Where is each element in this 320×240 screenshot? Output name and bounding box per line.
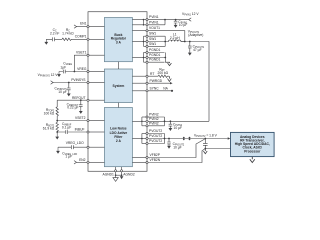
pin SW1 c — [144, 42, 166, 48]
node VPVIN1 12V input arrow — [182, 12, 199, 21]
svg-text:VPVIN1 12 V: VPVIN1 12 V — [182, 12, 199, 17]
ground (CPVIN2) — [169, 128, 173, 131]
pin PVOUT2 a — [142, 129, 165, 135]
pin PGND1 c — [144, 58, 165, 64]
wire SW1 inside tie — [143, 36, 145, 46]
wire PVIN1 outside tie — [164, 19, 166, 25]
capacitor CVREG_LDO — [58, 145, 87, 149]
pin AGND1 — [103, 167, 119, 181]
input arrow VPVINSYS — [51, 81, 54, 84]
svg-text:47 µF: 47 µF — [193, 48, 202, 52]
wire AGND tie — [116, 174, 122, 176]
pin PVIN2 b — [132, 117, 209, 123]
wire PVOUT2 outside tie — [164, 134, 166, 144]
svg-text:NA: NA — [163, 87, 168, 91]
svg-text:EN2: EN2 — [79, 158, 86, 162]
svg-text:COMP1: COMP1 — [75, 34, 87, 38]
wire PVOUT2 inside tie — [141, 134, 143, 144]
capacitor CPVIN1 — [174, 19, 188, 28]
pin VREG_LDO with capacitor CVREG_LDO — [56, 141, 104, 159]
pin PVOUT2 c — [142, 139, 165, 145]
ground (divider) — [56, 132, 58, 134]
capacitor Cvreg — [59, 70, 87, 74]
wire sense return to processor — [205, 148, 230, 150]
ground (comp network) — [44, 39, 48, 45]
resistor Rc — [62, 38, 87, 40]
svg-text:PGND1: PGND1 — [149, 48, 161, 52]
svg-text:61.9 kΩ: 61.9 kΩ — [43, 127, 55, 131]
pin PVOUT2 b — [132, 134, 227, 140]
pin PVINSYS with input VPVINSYS 12V and capacitor CPVINSYS — [38, 73, 105, 96]
capacitor CPVOUT2 — [167, 138, 185, 150]
capacitor CPVINSYS — [67, 83, 71, 91]
IC outline — [88, 12, 147, 172]
svg-text:VPVINSYS 12 V: VPVINSYS 12 V — [38, 73, 59, 78]
pin EN2 — [74, 158, 105, 164]
ground AGND1 open triangle — [113, 178, 118, 182]
capacitor output bypass at load — [203, 138, 208, 154]
pin COMP1 with Rc Cc compensation network — [44, 28, 104, 45]
wire system to LDO connector — [117, 103, 119, 108]
ground AGND2 filled arrow — [120, 176, 124, 179]
wire PGND1 inside tie — [143, 53, 145, 63]
svg-text:INBUF: INBUF — [75, 128, 85, 132]
svg-text:REFOUT: REFOUT — [72, 96, 86, 100]
svg-text:SW1: SW1 — [149, 32, 156, 36]
wire VOUT1 to output node — [148, 31, 185, 42]
ground (CVREG_LDO) — [57, 147, 59, 148]
block System U1b — [104, 69, 132, 103]
wire PVIN2 outside tie — [164, 117, 166, 126]
svg-text:1.74 kΩ: 1.74 kΩ — [62, 31, 74, 35]
pin PGND1 b — [132, 53, 164, 59]
pin RT with resistor RRT — [132, 67, 171, 81]
svg-text:PGND1: PGND1 — [149, 53, 161, 57]
ground (CPVOUT1) — [188, 53, 192, 56]
pin AGND2 — [115, 167, 135, 179]
ferrite bead FB2 — [189, 137, 191, 140]
junction CPVINSYS tap — [68, 82, 70, 84]
svg-text:200 kΩ: 200 kΩ — [158, 71, 169, 75]
wire SW1 outside tie — [164, 36, 166, 46]
pin PVIN2 c — [142, 121, 165, 127]
arrow into processor VPVOUT2 — [228, 137, 231, 139]
pin SW1 b — [132, 37, 165, 43]
wire PVINSYS — [53, 82, 87, 84]
svg-text:PGND1: PGND1 — [149, 58, 161, 62]
svg-text:VREG_LDO: VREG_LDO — [66, 141, 84, 145]
svg-text:VPVOUT2 = 1.8 V: VPVOUT2 = 1.8 V — [194, 133, 218, 138]
svg-text:PWRGD: PWRGD — [150, 79, 163, 83]
ground (Cvreg) — [57, 72, 61, 78]
wire PVIN1 inside tie — [143, 19, 145, 26]
pin VOUT1 — [132, 26, 185, 42]
node VPVOUT1 wire to PVIN2 — [181, 29, 209, 121]
svg-text:PVOUT2: PVOUT2 — [149, 134, 162, 138]
svg-text:System: System — [113, 84, 125, 88]
inductor L1 — [165, 33, 185, 42]
ground (CPVOUT2) — [167, 146, 171, 149]
svg-text:3 A: 3 A — [116, 40, 122, 44]
wire PGND1 outside tie and ground — [164, 53, 171, 66]
pin VSET1 tied to VREG — [74, 51, 105, 73]
svg-text:SW1: SW1 — [149, 42, 156, 46]
pin REFOUT with divider RTOP2 RBOT2 and capacitor CREFOUT — [44, 96, 105, 121]
ground (RRT) — [168, 76, 172, 81]
svg-text:VSET2: VSET2 — [75, 116, 86, 120]
pin PGND1 a — [144, 48, 165, 54]
pin PVIN1 b — [132, 20, 165, 26]
svg-text:RT: RT — [150, 72, 154, 76]
block Low Noise LDO Active Filter U1c — [104, 108, 132, 167]
resistor RTOP2 — [56, 100, 58, 120]
svg-text:PVIN1: PVIN1 — [149, 15, 159, 19]
junction VSET1/VREG — [74, 71, 76, 73]
pin VFB2N — [132, 149, 204, 164]
svg-text:100 kΩ: 100 kΩ — [44, 111, 55, 115]
svg-text:PVIN1: PVIN1 — [149, 20, 159, 24]
capacitor Cc — [46, 37, 62, 41]
svg-text:VFB2N: VFB2N — [150, 158, 161, 162]
pin SW1 a — [144, 32, 166, 38]
svg-text:SYNC: SYNC — [150, 87, 160, 91]
ground (CREFOUT) — [79, 108, 83, 114]
pin INBUF with capacitor CINBUF — [55, 122, 104, 139]
svg-text:PVIN2: PVIN2 — [149, 121, 159, 125]
pin PVIN1 a — [132, 15, 188, 21]
svg-text:Processor: Processor — [244, 149, 261, 153]
pin PVIN2 a — [142, 113, 165, 119]
ferrite bead FB1 — [183, 137, 185, 140]
capacitor CPVOUT1 — [188, 41, 205, 56]
resistor RBOT2 — [43, 121, 59, 133]
wire buck to system connector — [117, 62, 119, 69]
pin VFB2P — [132, 139, 204, 158]
svg-text:EN1: EN1 — [80, 22, 87, 26]
block Analog Devices processor — [231, 132, 275, 156]
svg-text:10 µF: 10 µF — [58, 90, 67, 94]
pin EN1 — [74, 22, 105, 29]
svg-text:0.22 µF: 0.22 µF — [67, 106, 78, 110]
svg-text:10 µF: 10 µF — [173, 145, 182, 149]
svg-text:10 µF: 10 µF — [179, 23, 188, 27]
pin VREG with bypass capacitor Cvreg — [57, 62, 104, 77]
pin VSET2 — [56, 116, 104, 122]
ground (CPVIN1) — [174, 25, 178, 28]
svg-text:2.2 nF: 2.2 nF — [50, 31, 59, 35]
svg-text:PVIN2: PVIN2 — [149, 117, 159, 121]
svg-text:0.1 µF: 0.1 µF — [62, 126, 71, 130]
svg-text:PVOUT2: PVOUT2 — [149, 139, 162, 143]
svg-text:VFB2P: VFB2P — [150, 153, 161, 157]
svg-text:VOUT1: VOUT1 — [149, 26, 160, 30]
block Buck Regulator U1a — [104, 18, 132, 62]
svg-text:PVINSYS: PVINSYS — [71, 78, 86, 82]
capacitor CREFOUT — [79, 100, 83, 108]
capacitor CPVIN2 — [169, 120, 183, 131]
resistor RRT — [148, 75, 169, 77]
ground (CPVINSYS) — [67, 91, 71, 97]
ground (load cap) — [203, 149, 207, 154]
svg-text:(Adaptive): (Adaptive) — [188, 33, 203, 37]
junction RBOT2/CINBUF — [56, 131, 58, 133]
svg-text:VREG: VREG — [77, 67, 87, 71]
junction VSET2 divider — [56, 120, 58, 122]
svg-text:1 µF: 1 µF — [65, 155, 72, 159]
svg-text:VSET1: VSET1 — [76, 51, 87, 55]
svg-text:AGND1: AGND1 — [103, 173, 115, 177]
svg-text:2.2 µH: 2.2 µH — [170, 36, 180, 40]
pin SYNC — [132, 87, 173, 92]
pin PWRGD — [132, 79, 172, 84]
ground (processor) — [250, 157, 255, 163]
svg-text:AGND2: AGND2 — [123, 173, 135, 177]
svg-text:10 µF: 10 µF — [174, 126, 183, 130]
svg-text:2 A: 2 A — [116, 139, 122, 143]
svg-text:PVOUT2: PVOUT2 — [149, 129, 162, 133]
wire PVIN2 inside tie — [141, 117, 143, 126]
svg-text:SW1: SW1 — [149, 37, 156, 41]
junction CREFOUT tap — [80, 99, 82, 101]
svg-text:1µF: 1µF — [60, 66, 66, 70]
capacitor CINBUF — [57, 130, 87, 134]
